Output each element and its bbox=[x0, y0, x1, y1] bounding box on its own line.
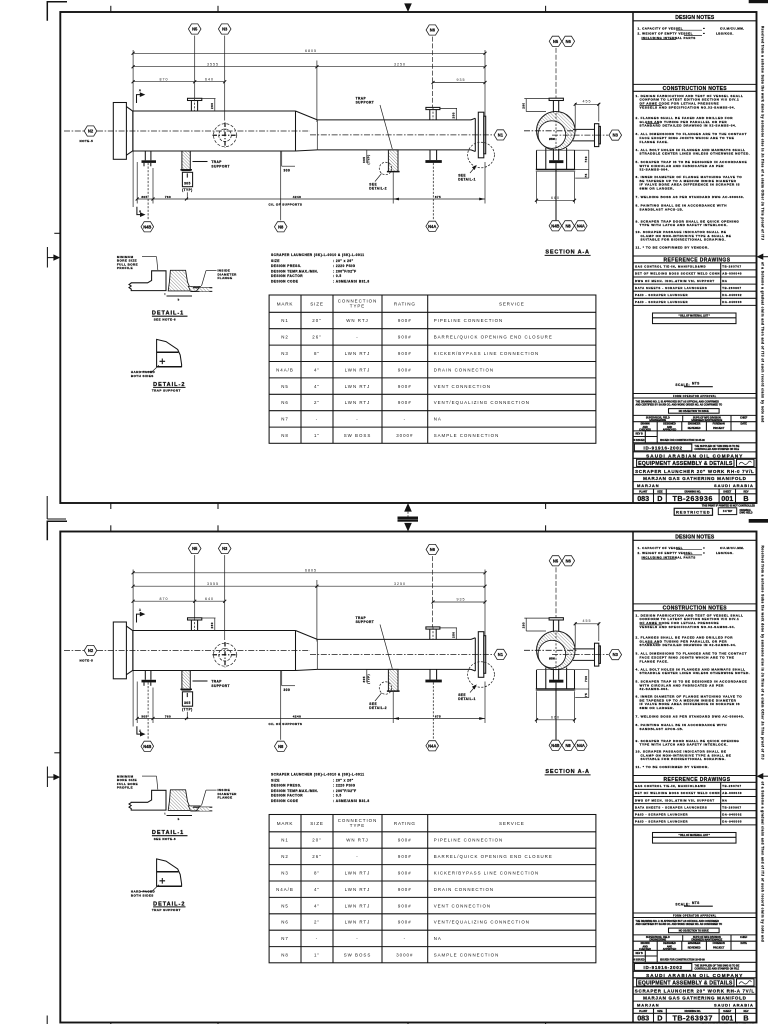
svg-text:SCRAPER LAUNCHER 20" WORK RH-0: SCRAPER LAUNCHER 20" WORK RH-0 7V/L bbox=[635, 469, 754, 474]
sheet 1 bbox=[47, 0, 768, 522]
sheet 2 bbox=[47, 517, 768, 1024]
svg-text:TB-263936: TB-263936 bbox=[672, 494, 712, 503]
svg-text:SCRAPER LAUNCHER 20" WORK RH-A: SCRAPER LAUNCHER 20" WORK RH-A 7V/L bbox=[635, 988, 755, 993]
svg-text:TB-263937: TB-263937 bbox=[672, 1014, 712, 1023]
